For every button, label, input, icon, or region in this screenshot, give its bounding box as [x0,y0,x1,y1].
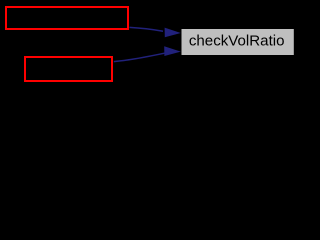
node checkVolRatio (gray) [182,29,294,55]
wire: arrow edge from caller 2 to checkVolRatio [114,46,181,61]
caller node box 2 (red, truncated) [25,57,112,81]
caller node box 1 (red, truncated) [6,7,128,29]
wire: arrow edge from caller 1 to checkVolRatio [130,27,181,37]
svg-text:checkVolRatio: checkVolRatio [189,33,285,50]
